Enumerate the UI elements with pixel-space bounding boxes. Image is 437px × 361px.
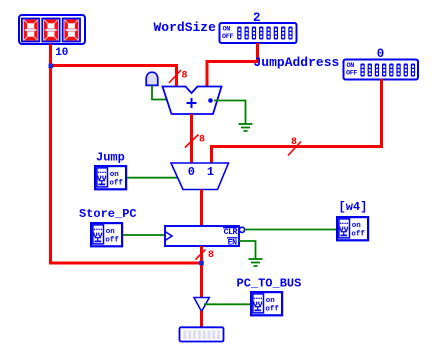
wire buffer enable green [204, 303, 250, 305]
constant one generator [146, 72, 158, 85]
wire JumpAddress to mux input 1 [212, 79, 382, 163]
switch w4 [337, 217, 368, 240]
junction node register output [199, 261, 204, 266]
svg-text:PC_TO_BUS: PC_TO_BUS [237, 277, 302, 291]
bus width slash on JumpAddress wire [288, 142, 301, 156]
svg-text:10: 10 [55, 47, 68, 59]
svg-text:8: 8 [182, 71, 188, 82]
wire display bus down left side [49, 66, 52, 265]
tri-state buffer [194, 298, 209, 312]
svg-text:CLR: CLR [224, 228, 238, 237]
wire adder output to mux input 0 [190, 114, 193, 163]
multiplexer MUX1 [171, 163, 229, 190]
svg-text:Store_PC: Store_PC [79, 207, 137, 221]
wire buffer output to bus [200, 311, 203, 328]
svg-text:8: 8 [208, 250, 214, 261]
wire bottom horizontal to junction [49, 262, 202, 265]
ground symbol at register EN [249, 259, 263, 266]
svg-text:8: 8 [199, 135, 205, 146]
DIP switch WordSize [220, 23, 297, 43]
switch Jump [95, 166, 126, 189]
svg-text:WordSize: WordSize [154, 20, 217, 35]
svg-text:[w4]: [w4] [339, 200, 368, 214]
7-segment display DSP1 [19, 15, 85, 44]
wire Jump select green [127, 177, 179, 179]
wire carry-in green [152, 86, 168, 100]
svg-text:1: 1 [207, 165, 214, 179]
junction node at display wire [49, 64, 54, 69]
bus connector [180, 327, 224, 341]
wire carry-out green [214, 101, 246, 125]
bus width slash adder A input [169, 70, 181, 83]
wire adder A input vertical [175, 64, 178, 88]
svg-text:8: 8 [291, 137, 297, 148]
svg-text:JumpAddress: JumpAddress [254, 55, 340, 70]
bus width slash register output [196, 250, 206, 260]
register REG1 [165, 226, 245, 247]
adder U1 [163, 87, 222, 115]
svg-text:EN: EN [228, 238, 237, 247]
wire WordSize output [207, 43, 258, 88]
svg-text:0: 0 [188, 165, 195, 179]
wire display output [49, 44, 52, 66]
wire Store_PC clock green [123, 234, 166, 236]
ground symbol at adder carry-out [239, 124, 253, 131]
svg-text:OFF: OFF [346, 69, 358, 77]
wire register CLR to w4 green [245, 229, 337, 231]
svg-text:OFF: OFF [222, 33, 234, 41]
DIP switch JumpAddress [344, 60, 419, 80]
wire register EN green [239, 241, 256, 259]
wire mux output to register [200, 190, 203, 228]
wire display to adder A horizontal [49, 64, 177, 67]
bus width slash adder output [185, 135, 199, 148]
switch PC_TO_BUS [251, 292, 282, 315]
wire register output to buffer [200, 246, 203, 298]
switch Store_PC [91, 223, 122, 246]
svg-text:Jump: Jump [96, 151, 125, 165]
